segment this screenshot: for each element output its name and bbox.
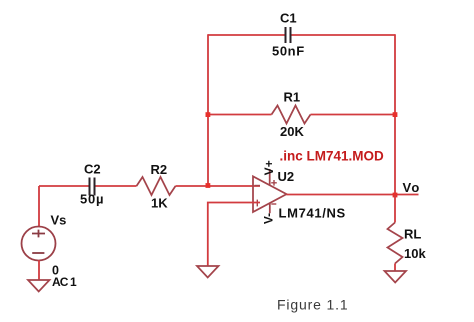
node junction left R1 bbox=[206, 112, 211, 117]
node junction output bbox=[393, 193, 398, 198]
svg-text:V+: V+ bbox=[262, 160, 276, 175]
svg-text:AC 1: AC 1 bbox=[52, 275, 77, 289]
wire Vs to ground bbox=[38, 260, 40, 280]
svg-text:LM741/NS: LM741/NS bbox=[279, 206, 346, 221]
resistor RL bbox=[388, 223, 403, 264]
plus mark at V+ pin bbox=[271, 180, 277, 186]
ground Vs bbox=[28, 280, 50, 292]
wire non-inverting input to ground bbox=[208, 203, 260, 267]
wire R1 branch left bbox=[208, 114, 272, 116]
pin V- line bbox=[269, 203, 271, 213]
pin V+ line bbox=[269, 169, 271, 185]
svg-text:50µ: 50µ bbox=[80, 192, 104, 207]
wire R2 to op-amp inverting input bbox=[176, 185, 261, 187]
wire input from Vs to C2 bbox=[39, 185, 89, 187]
svg-text:1K: 1K bbox=[151, 196, 168, 211]
node junction input bbox=[206, 183, 211, 188]
plus mark at non-inverting input bbox=[256, 200, 258, 207]
resistor R2 bbox=[137, 177, 176, 195]
svg-text:.inc LM741.MOD: .inc LM741.MOD bbox=[280, 149, 385, 164]
wire top loop right bbox=[291, 34, 395, 36]
svg-text:RL: RL bbox=[404, 227, 421, 242]
wire C2 to R2 bbox=[95, 185, 137, 187]
ground RL bbox=[385, 271, 407, 283]
capacitor C2 bbox=[90, 178, 95, 196]
wire R1 branch right bbox=[311, 114, 396, 116]
node junction right R1 bbox=[393, 112, 398, 117]
voltage source Vs bbox=[22, 227, 56, 261]
svg-text:R2: R2 bbox=[151, 162, 168, 177]
minus mark at inverting input bbox=[255, 185, 261, 187]
svg-text:V-: V- bbox=[262, 213, 276, 224]
svg-text:R1: R1 bbox=[284, 90, 301, 105]
svg-text:50nF: 50nF bbox=[272, 44, 305, 59]
svg-text:Vo: Vo bbox=[403, 180, 421, 195]
svg-text:Figure 1.1: Figure 1.1 bbox=[277, 297, 349, 313]
wire left vertical feedback bbox=[207, 34, 209, 185]
wire output bbox=[287, 194, 419, 196]
minus mark in Vs bbox=[32, 252, 44, 254]
op-amp U2 bbox=[253, 176, 287, 212]
resistor R1 bbox=[272, 106, 311, 124]
wire RL to ground bbox=[394, 264, 396, 272]
svg-text:20K: 20K bbox=[280, 124, 304, 139]
svg-text:C2: C2 bbox=[84, 162, 101, 177]
plus mark in Vs bbox=[32, 230, 45, 238]
minus mark at V- pin bbox=[271, 203, 276, 205]
wire right vertical bbox=[394, 34, 396, 195]
wire top loop left (C1 branch) bbox=[208, 34, 285, 36]
svg-text:C1: C1 bbox=[280, 11, 297, 26]
svg-text:10k: 10k bbox=[404, 246, 426, 261]
svg-text:U2: U2 bbox=[278, 169, 295, 184]
wire Vs vertical bbox=[38, 186, 40, 227]
capacitor C1 bbox=[286, 27, 291, 43]
svg-text:Vs: Vs bbox=[51, 213, 67, 228]
ground op-amp bbox=[197, 266, 219, 278]
wire output to RL bbox=[394, 195, 396, 223]
